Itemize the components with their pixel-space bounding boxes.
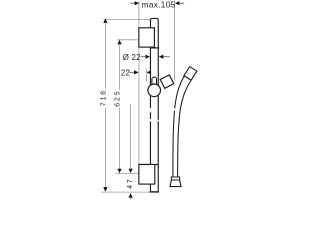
svg-text:Ø 22: Ø 22	[123, 53, 141, 62]
top bracket clamp	[150, 47, 159, 49]
hose	[173, 76, 191, 177]
bar bottom cap	[150, 191, 159, 193]
svg-text:718: 718	[100, 89, 107, 106]
dimension 625	[115, 40, 122, 174]
bottom wall bracket	[139, 165, 155, 185]
wall bar tube	[150, 18, 158, 191]
svg-text:47: 47	[127, 177, 134, 188]
extension line bar top	[104, 18, 151, 20]
slider knob	[148, 84, 161, 97]
dimension 718	[100, 18, 107, 191]
dimension 47	[127, 104, 134, 200]
hose end connector (top)	[184, 67, 197, 81]
extension line bar bottom	[101, 191, 150, 193]
dimension max.105	[130, 0, 184, 9]
extension line holder (max.105 right)	[174, 1, 176, 81]
shower holder cup	[160, 75, 174, 88]
top wall bracket	[139, 28, 155, 47]
line nicks	[150, 108, 176, 122]
wall reference extension line	[138, 1, 140, 164]
slider knob tab	[152, 77, 157, 86]
svg-text:625: 625	[115, 89, 122, 106]
hose bottom collar	[171, 177, 179, 180]
svg-text:22: 22	[121, 68, 130, 77]
extension line bracket bottom middle	[116, 173, 139, 175]
dimension 22 (wall offset)	[121, 68, 151, 81]
dimension diameter 22	[123, 53, 170, 62]
hose bottom cone	[170, 180, 181, 187]
svg-text:max.105: max.105	[142, 0, 176, 9]
extension line bracket top middle	[117, 39, 138, 41]
bottom wall bracket clamp	[139, 164, 159, 166]
